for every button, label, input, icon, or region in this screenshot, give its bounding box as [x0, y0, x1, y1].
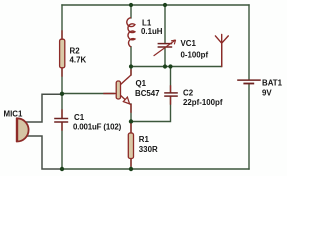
svg-text:R1: R1 — [139, 135, 150, 144]
svg-text:BC547: BC547 — [135, 89, 160, 98]
svg-text:MIC1: MIC1 — [4, 109, 23, 118]
svg-text:22pf-100pf: 22pf-100pf — [183, 98, 223, 107]
svg-text:0-100pf: 0-100pf — [181, 50, 209, 59]
svg-text:Q1: Q1 — [136, 79, 147, 88]
svg-text:9V: 9V — [262, 89, 272, 98]
svg-text:0.1uH: 0.1uH — [141, 27, 163, 36]
svg-text:BAT1: BAT1 — [262, 78, 283, 87]
svg-text:C1: C1 — [74, 113, 85, 122]
svg-text:VC1: VC1 — [181, 39, 197, 48]
svg-text:330R: 330R — [139, 145, 158, 154]
svg-text:C2: C2 — [183, 89, 194, 98]
svg-text:4.7K: 4.7K — [70, 56, 87, 65]
svg-text:R2: R2 — [70, 46, 81, 55]
svg-text:0.001uF (102): 0.001uF (102) — [73, 122, 122, 131]
